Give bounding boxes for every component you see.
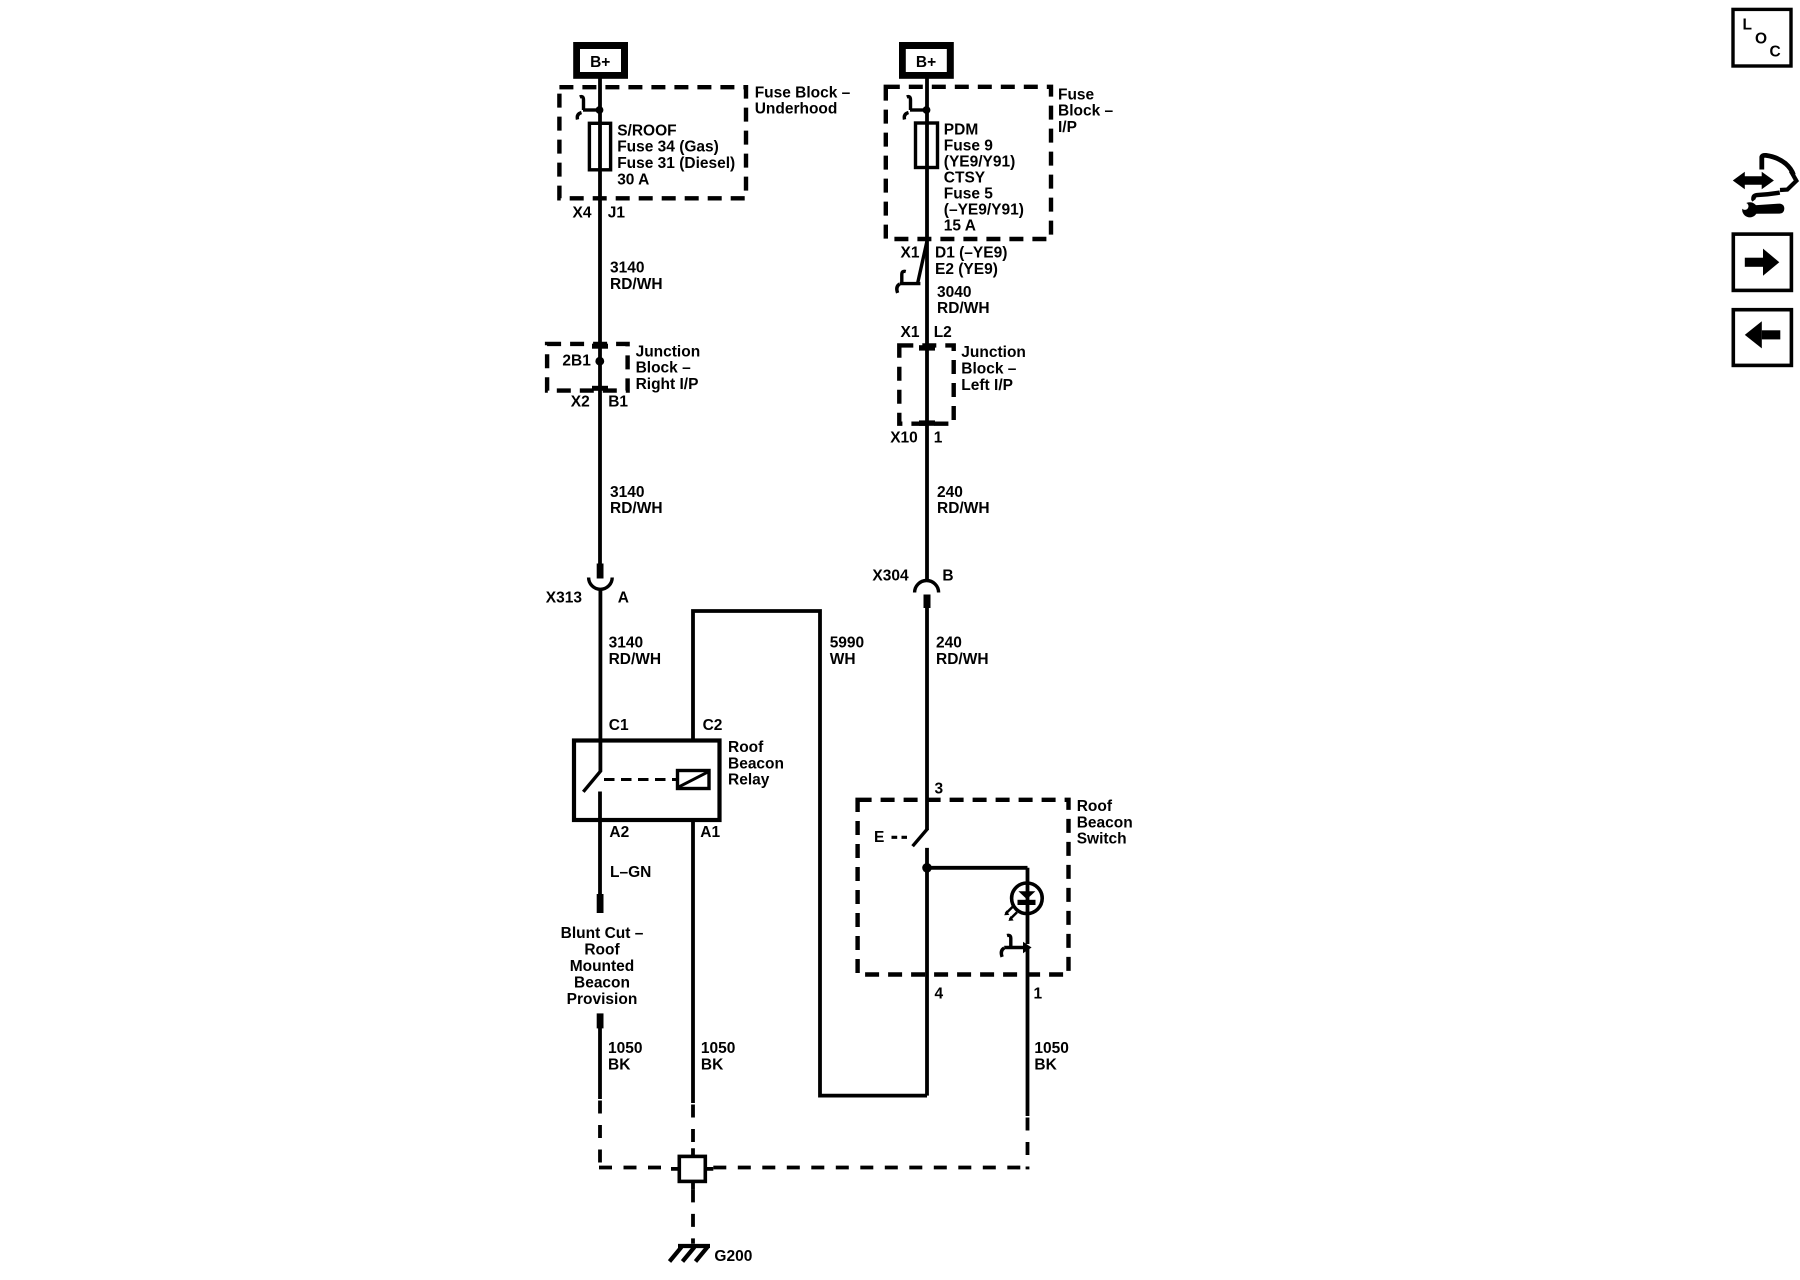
svg-text:1: 1 [934, 430, 943, 447]
svg-text:Block –: Block – [636, 360, 692, 377]
B+ symbol left [573, 42, 628, 79]
wire branch to LED [925, 868, 1028, 944]
svg-text:L2: L2 [934, 324, 952, 341]
svg-text:PDM: PDM [944, 121, 978, 138]
svg-text:C2: C2 [703, 717, 723, 734]
svg-text:RD/WH: RD/WH [936, 651, 989, 668]
svg-text:X1: X1 [901, 324, 920, 341]
svg-text:BK: BK [1034, 1057, 1057, 1074]
svg-text:3140: 3140 [609, 635, 643, 652]
svg-text:Beacon: Beacon [728, 755, 784, 772]
svg-text:Roof: Roof [1077, 798, 1113, 815]
svg-text:3040: 3040 [937, 284, 971, 301]
svg-text:L–GN: L–GN [610, 864, 651, 881]
svg-text:A: A [618, 590, 629, 607]
svg-text:S/ROOF: S/ROOF [617, 122, 676, 139]
svg-text:30 A: 30 A [617, 172, 649, 189]
svg-text:X2: X2 [571, 394, 590, 411]
icon arrow right box [1733, 234, 1791, 290]
relay switch blade [583, 770, 601, 792]
relay Roof Beacon Relay box [574, 741, 720, 821]
svg-text:Fuse 31 (Diesel): Fuse 31 (Diesel) [617, 155, 735, 172]
svg-text:E: E [874, 829, 884, 846]
LED cathode bar [1018, 900, 1036, 905]
LED triangle [1018, 891, 1035, 899]
svg-text:E2 (YE9): E2 (YE9) [935, 261, 998, 278]
wire tick top 2B1 [592, 344, 608, 349]
wire tick top L2 [919, 345, 935, 350]
Roof Beacon Switch dashed box [858, 800, 1069, 975]
svg-text:15 A: 15 A [944, 217, 976, 234]
switch E dashes [892, 836, 908, 839]
B+ symbol right [899, 42, 954, 79]
wire B+ to X304 (3040/240 RD/WH) [925, 78, 929, 581]
blunt cut end [597, 894, 604, 913]
svg-text:Fuse 9: Fuse 9 [944, 137, 993, 154]
svg-text:I/P: I/P [1058, 119, 1077, 136]
svg-text:C1: C1 [609, 717, 629, 734]
svg-text:A2: A2 [609, 824, 629, 841]
relay coil box [678, 771, 710, 789]
svg-text:Roof: Roof [584, 942, 620, 959]
wire tick bottom 2B1 [592, 386, 608, 391]
Junction Block Right IP dashed box [547, 344, 628, 391]
svg-text:RD/WH: RD/WH [937, 300, 990, 317]
COMPONENTS [547, 42, 1068, 975]
LED indicator circle [1012, 883, 1043, 914]
fuse terminal connector right [904, 97, 930, 120]
icon arrow left box [1733, 310, 1791, 366]
svg-text:Block –: Block – [961, 361, 1017, 378]
wire relay A2 to blunt cut (L-GN) [598, 792, 602, 896]
LED lower terminal connector [1001, 935, 1031, 957]
dashed wire G200 square to ground [691, 1189, 695, 1243]
svg-text:B1: B1 [608, 394, 628, 411]
dashed wire to ground run [598, 1101, 602, 1168]
LOC legend box [1733, 9, 1791, 66]
svg-text:X304: X304 [872, 568, 909, 585]
svg-text:1050: 1050 [608, 1040, 642, 1057]
wire relay coil C2 up and over (5990 WH) [693, 611, 927, 1096]
svg-text:X10: X10 [890, 430, 918, 447]
dashed horizontal ground run left [599, 1166, 671, 1170]
wire B+ to X313 (3140 RD/WH) [598, 78, 602, 564]
svg-text:A1: A1 [700, 824, 720, 841]
svg-text:B+: B+ [590, 54, 610, 71]
svg-text:WH: WH [830, 651, 856, 668]
svg-text:G200: G200 [714, 1248, 752, 1265]
LED light arrow 1 [1004, 907, 1013, 916]
ground symbol G200 [670, 1246, 711, 1262]
svg-text:Switch: Switch [1077, 831, 1127, 848]
svg-text:(YE9/Y91): (YE9/Y91) [944, 153, 1016, 170]
svg-text:(–YE9/Y91): (–YE9/Y91) [944, 201, 1024, 218]
G200 junction square [679, 1156, 705, 1181]
junction dot node [922, 863, 932, 873]
wire X304 to switch pin 3 (240 RD/WH) [925, 608, 929, 831]
svg-text:B: B [942, 567, 953, 584]
svg-text:240: 240 [937, 484, 963, 501]
svg-text:3140: 3140 [610, 484, 644, 501]
svg-text:CTSY: CTSY [944, 169, 986, 186]
fuse S/ROOF [589, 123, 610, 170]
WIRES-LEFT [589, 78, 1028, 1262]
svg-text:D1 (–YE9): D1 (–YE9) [935, 244, 1007, 261]
wire relay A1 down (1050 BK) [691, 818, 695, 1103]
svg-text:Right I/P: Right I/P [636, 376, 699, 393]
svg-text:5990: 5990 [830, 635, 864, 652]
svg-text:Fuse Block –: Fuse Block – [755, 84, 851, 101]
connector X313 male pin [597, 564, 604, 579]
svg-text:Beacon: Beacon [574, 974, 630, 991]
svg-text:Relay: Relay [728, 772, 770, 789]
svg-text:X1: X1 [901, 244, 920, 261]
svg-text:J1: J1 [608, 205, 626, 222]
svg-text:3140: 3140 [610, 260, 644, 277]
CORNER-ICONS [1733, 9, 1797, 365]
Junction Block Left IP dashed box [899, 345, 953, 423]
svg-text:X313: X313 [546, 590, 583, 607]
relay actuation dashed link [604, 778, 676, 781]
svg-text:X4: X4 [573, 205, 592, 222]
svg-text:RD/WH: RD/WH [610, 500, 663, 517]
connector X304 female cap [915, 581, 939, 593]
connector X1 terminal [897, 242, 927, 293]
svg-text:Roof: Roof [728, 739, 764, 756]
svg-text:O: O [1755, 31, 1767, 48]
LED light arrow 2 [1008, 912, 1017, 921]
svg-text:240: 240 [936, 635, 962, 652]
WIRES-RIGHT [913, 78, 1028, 1169]
svg-text:C: C [1770, 44, 1781, 61]
svg-text:4: 4 [935, 985, 944, 1002]
wire LED connector to pin 1 (1050 BK) [1026, 947, 1030, 1116]
Fuse Block Underhood dashed box [559, 87, 746, 198]
svg-text:BK: BK [608, 1057, 631, 1074]
relay coil diagonal [679, 772, 708, 787]
fuse PDM [916, 123, 938, 168]
svg-text:Fuse: Fuse [1058, 86, 1095, 103]
svg-text:Block –: Block – [1058, 103, 1114, 120]
fuse terminal connector left [577, 97, 603, 120]
svg-text:2B1: 2B1 [562, 352, 591, 369]
svg-text:Fuse 34 (Gas): Fuse 34 (Gas) [617, 139, 719, 156]
svg-text:BK: BK [701, 1057, 724, 1074]
svg-text:Underhood: Underhood [755, 101, 838, 118]
svg-text:Beacon: Beacon [1077, 814, 1133, 831]
svg-text:B+: B+ [916, 54, 936, 71]
svg-text:Mounted: Mounted [570, 958, 635, 975]
svg-text:Blunt Cut –: Blunt Cut – [561, 925, 644, 942]
svg-text:1050: 1050 [701, 1040, 735, 1057]
svg-text:3: 3 [935, 781, 944, 798]
connector X313 female cup [589, 578, 613, 590]
dashed horizontal ground run right [713, 1166, 1027, 1170]
svg-text:1050: 1050 [1034, 1040, 1068, 1057]
dashed wire pin 1 to ground run [1026, 1118, 1030, 1170]
dashed wire A1 to G200 junction [691, 1105, 695, 1149]
wire blunt provision down (1050 BK) [598, 1028, 602, 1099]
svg-text:Junction: Junction [636, 343, 701, 360]
svg-text:RD/WH: RD/WH [610, 276, 663, 293]
svg-text:RD/WH: RD/WH [609, 651, 662, 668]
connector X304 male pin [924, 595, 931, 609]
wire switch to pin 4 down to relay loop [925, 848, 929, 1096]
Fuse Block I/P dashed box [886, 87, 1051, 239]
svg-text:Junction: Junction [961, 344, 1026, 361]
node 2B1 dot [595, 357, 604, 366]
icon double arrow with wrench [1733, 155, 1797, 217]
svg-text:L: L [1743, 17, 1752, 34]
junction stubs [671, 1148, 713, 1189]
switch blade [913, 829, 928, 847]
svg-text:Fuse 5: Fuse 5 [944, 185, 993, 202]
blunt cut provision pin [597, 1013, 604, 1028]
svg-text:RD/WH: RD/WH [937, 500, 990, 517]
svg-text:Provision: Provision [567, 991, 638, 1008]
svg-text:1: 1 [1034, 985, 1043, 1002]
wire X313 to relay C1 (3140 RD/WH) [599, 589, 603, 771]
svg-text:Left I/P: Left I/P [961, 377, 1013, 394]
wire tick bottom L2 [919, 420, 935, 425]
